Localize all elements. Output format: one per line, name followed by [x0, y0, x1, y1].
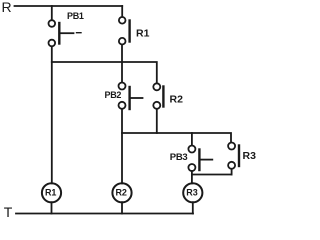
pushbutton PB3	[188, 146, 212, 172]
svg-text:R3: R3	[243, 150, 257, 162]
wire R rail to PB1	[51, 6, 53, 20]
coil R3	[183, 183, 202, 202]
wire R rail corner down to contact R1	[121, 6, 123, 17]
svg-text:R: R	[2, 0, 12, 15]
wire contact R1 down to PB2	[121, 45, 123, 83]
svg-text:R2: R2	[115, 187, 127, 197]
wire contact R3 down to bus C	[231, 169, 233, 175]
wire coil R2 to T rail	[121, 202, 123, 213]
rail T	[16, 213, 193, 215]
svg-text:R2: R2	[170, 94, 184, 106]
contact R1	[119, 17, 130, 45]
svg-text:PB2: PB2	[105, 90, 122, 100]
wire contact R2 down to bus B	[156, 109, 158, 133]
pushbutton PB1	[49, 20, 82, 46]
bus node A	[52, 62, 157, 83]
bus node B	[122, 133, 231, 142]
contact R3	[228, 143, 239, 169]
svg-text:PB3: PB3	[170, 152, 188, 163]
pushbutton PB2	[119, 83, 143, 110]
svg-text:T: T	[4, 204, 13, 220]
rail R	[15, 5, 123, 7]
coil R1	[42, 183, 61, 202]
wire PB3 down to coil R3	[191, 171, 193, 183]
svg-text:R1: R1	[136, 28, 150, 40]
coil R2	[112, 183, 131, 202]
bus node C	[192, 174, 232, 176]
svg-text:R1: R1	[45, 187, 57, 197]
svg-text:R3: R3	[186, 187, 198, 197]
wire coil R3 to T rail	[192, 202, 194, 213]
wire PB1 down to coil R1	[51, 46, 53, 183]
wire coil R1 to T rail	[51, 202, 53, 213]
svg-text:PB1: PB1	[67, 11, 84, 21]
wire PB2 down to coil R2	[121, 109, 123, 183]
wire bus B down to PB3	[191, 133, 193, 145]
contact R2	[153, 83, 163, 109]
